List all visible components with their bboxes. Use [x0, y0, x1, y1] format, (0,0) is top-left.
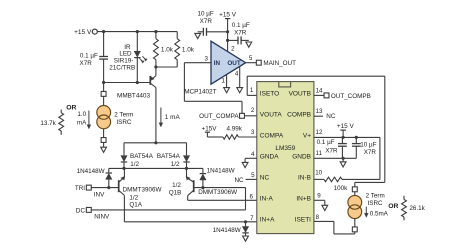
transistor Q1A DMMT3906W 1/2 (PNP) — [118, 180, 120, 192]
svg-text:100k: 100k — [334, 185, 349, 192]
svg-text:GNDB: GNDB — [292, 154, 311, 161]
svg-text:ISRC: ISRC — [116, 119, 131, 126]
svg-text:11: 11 — [316, 150, 323, 157]
svg-text:4: 4 — [235, 70, 239, 77]
annotation current arrow 1.0 mA — [88, 111, 90, 126]
svg-text:X7R: X7R — [234, 29, 247, 36]
svg-text:+15 V: +15 V — [219, 11, 237, 18]
svg-text:SIR19-: SIR19- — [114, 57, 134, 64]
svg-text:Q1B: Q1B — [169, 189, 182, 196]
wire MCP pin 1 ground — [226, 75, 228, 88]
wire to LM359 pin 1 — [247, 94, 257, 96]
svg-text:OUT_COMPB: OUT_COMPB — [331, 93, 371, 100]
ground arrow below caps — [342, 158, 344, 161]
svg-text:1/2: 1/2 — [130, 161, 139, 168]
svg-text:2: 2 — [251, 107, 255, 114]
svg-text:1N4148W: 1N4148W — [77, 168, 105, 175]
svg-text:DC: DC — [76, 207, 86, 214]
svg-text:4: 4 — [251, 151, 255, 158]
svg-text:9: 9 — [317, 192, 321, 199]
svg-text:1.0: 1.0 — [77, 111, 86, 118]
junction GNDB/ground — [342, 157, 345, 160]
pin 13 COMPB wire (NC) — [314, 115, 323, 117]
junction INV / 1N4148W — [107, 186, 110, 189]
svg-text:0.5mA: 0.5mA — [370, 211, 389, 218]
svg-text:1.0k: 1.0k — [161, 46, 174, 53]
svg-text:13.7k: 13.7k — [40, 120, 56, 127]
svg-text:1: 1 — [250, 87, 254, 94]
svg-text:ISRC: ISRC — [368, 200, 383, 207]
svg-text:+15 V: +15 V — [337, 123, 355, 130]
svg-text:MMBT4403: MMBT4403 — [117, 93, 150, 100]
svg-text:OR: OR — [66, 104, 76, 111]
junction base / 1N4148W anode — [201, 186, 204, 189]
2-terminal current source ISRC 0.5mA (right) — [352, 187, 357, 192]
svg-text:2 Term: 2 Term — [114, 111, 133, 118]
junction collector/rail A — [154, 141, 157, 144]
diode BAT54A 1/2 (right) — [186, 143, 188, 156]
svg-text:13: 13 — [316, 108, 323, 115]
pin 12 V+ wire — [314, 136, 380, 138]
wire base net y=82.5 — [104, 82, 150, 84]
svg-text:10 µF: 10 µF — [197, 11, 213, 18]
junction V+/cap 10uF — [355, 136, 358, 139]
wire MMBT4403 collector down — [155, 88, 157, 143]
svg-text:5: 5 — [249, 55, 253, 62]
svg-text:7: 7 — [250, 215, 254, 222]
svg-text:DMMT3906W: DMMT3906W — [123, 187, 162, 194]
capacitor 10uF X7R (at MCP) — [207, 31, 228, 33]
svg-text:1.0k: 1.0k — [182, 46, 195, 53]
wire ISETO feedback rail y=76.2 — [247, 75, 385, 77]
svg-text:MCP1402T: MCP1402T — [184, 88, 216, 95]
svg-text:21C/TRB: 21C/TRB — [109, 65, 135, 72]
svg-text:+15V: +15V — [202, 125, 218, 132]
svg-text:Q1A: Q1A — [129, 202, 142, 209]
svg-text:6: 6 — [250, 194, 254, 201]
junction on rail at cap C1 — [102, 30, 105, 33]
svg-text:X7R: X7R — [200, 18, 213, 25]
diode 1N4148W (right of Q1B) — [202, 168, 204, 173]
svg-text:OUT: OUT — [227, 60, 240, 67]
junction IN+A / 1N4148W bottom — [244, 220, 247, 223]
op-amp U1 LM359 (DIP-14 body) — [257, 82, 314, 234]
svg-text:IN+A: IN+A — [260, 217, 275, 224]
svg-text:NINV: NINV — [94, 213, 110, 220]
svg-text:TRI: TRI — [75, 185, 85, 192]
svg-text:IN+B: IN+B — [296, 196, 311, 203]
svg-text:mA: mA — [77, 120, 87, 127]
net continuation arrow below left ISRC — [101, 147, 107, 152]
svg-text:COMPB: COMPB — [287, 112, 311, 119]
net continuation arrow below bottom 1N4148W — [243, 236, 249, 241]
wire IN+A net y=221.8 — [124, 221, 256, 223]
capacitor 0.1uF X7R (at MCP) — [228, 39, 238, 41]
node OUT_COMPA terminal — [240, 113, 245, 118]
resistor 13.7k (alternative) — [60, 110, 62, 113]
svg-text:5: 5 — [251, 172, 255, 179]
svg-text:+15 V: +15 V — [74, 29, 92, 36]
capacitor 0.1uF X7R (top left) — [103, 32, 105, 57]
annotation current arrow 1 mA — [160, 108, 162, 125]
svg-text:1/2: 1/2 — [172, 182, 181, 189]
wire MCP input from OUT_COMPA — [184, 62, 211, 64]
svg-text:2 Term: 2 Term — [366, 192, 385, 199]
svg-text:NC: NC — [234, 177, 244, 184]
driver MCP1402T (buffer triangle) — [211, 41, 246, 84]
svg-text:VOUTA: VOUTA — [260, 112, 283, 119]
wire collector rail A y=142.8 — [124, 142, 187, 144]
junction +15V / 0.1uF — [226, 39, 229, 42]
diode 1N4148W (bottom) — [245, 222, 247, 227]
annotation current arrow 0.5mA — [365, 207, 367, 215]
diode BAT54A 1/2 (left) — [123, 143, 125, 156]
capacitor 0.1uF X7R (right) — [341, 137, 343, 143]
svg-text:DMMT3906W: DMMT3906W — [198, 189, 237, 196]
svg-text:ISETO: ISETO — [260, 91, 279, 98]
wire OUT_COMPA to pin 2 VOUTA — [245, 115, 257, 117]
svg-text:VOUTB: VOUTB — [289, 91, 311, 98]
svg-text:0.1 µF: 0.1 µF — [232, 22, 250, 29]
svg-text:V+: V+ — [303, 133, 311, 140]
pin 14 VOUTB wire — [314, 94, 324, 96]
svg-text:3: 3 — [251, 129, 255, 136]
junction V+/cap 0.1uF/+15V — [342, 136, 345, 139]
svg-text:12: 12 — [316, 129, 323, 136]
svg-text:1N4148W: 1N4148W — [213, 227, 241, 234]
svg-text:BAT54A: BAT54A — [157, 153, 181, 160]
node OUT_COMPB terminal — [324, 93, 329, 98]
resistor 26.1k (alternative) — [403, 196, 405, 200]
capacitor 10uF X7R (right) — [355, 137, 357, 143]
pin 4 GNDA wire to ground arrow — [245, 157, 257, 159]
svg-text:3: 3 — [204, 56, 208, 63]
svg-text:INV: INV — [94, 191, 105, 198]
wire INV net — [91, 187, 118, 189]
wire MCP pin 4 ground — [239, 67, 241, 88]
svg-text:1 mA: 1 mA — [165, 114, 181, 121]
svg-text:LM359: LM359 — [275, 145, 295, 152]
svg-text:GNDA: GNDA — [260, 154, 279, 161]
svg-text:X7R: X7R — [364, 149, 377, 156]
resistor R 1.0k #1 — [155, 32, 157, 39]
svg-text:NC: NC — [260, 175, 270, 182]
junction on rail at R 1.0k #1 — [154, 30, 157, 33]
svg-text:OUT_COMPA: OUT_COMPA — [199, 113, 239, 120]
resistor R 1.0k #2 — [176, 32, 178, 39]
svg-text:0.1 µF: 0.1 µF — [317, 139, 335, 146]
transistor Q1B DMMT3906W 1/2 (PNP, mirrored) — [193, 180, 195, 192]
svg-text:26.1k: 26.1k — [409, 205, 425, 212]
junction +15V / 10uF — [226, 30, 229, 33]
svg-text:NC: NC — [326, 113, 336, 120]
svg-text:1/2: 1/2 — [129, 194, 138, 201]
IR LED SIR19-21C/TRB — [136, 32, 138, 51]
junction on rail at LED — [136, 30, 139, 33]
pin 10 IN-B wire with resistor 100k — [314, 178, 324, 180]
svg-text:2: 2 — [231, 46, 235, 53]
wire top +15V rail — [97, 31, 177, 33]
svg-text:10: 10 — [315, 170, 322, 177]
svg-text:ISETI: ISETI — [295, 217, 311, 224]
svg-text:1/2: 1/2 — [171, 161, 180, 168]
wire emitter rail B y=168.4 — [109, 167, 203, 169]
junction cap/base wire — [102, 81, 105, 84]
wire Q1B collector to IN-A — [187, 196, 189, 201]
svg-text:BAT54A: BAT54A — [130, 153, 154, 160]
junction LED/base wire — [136, 81, 139, 84]
svg-text:IN-B: IN-B — [298, 175, 311, 182]
svg-text:IN: IN — [214, 60, 221, 67]
wire joining 1.0k resistor bottoms — [156, 66, 177, 68]
svg-text:10 µF: 10 µF — [360, 141, 376, 148]
svg-text:14: 14 — [316, 87, 323, 94]
wire Q1B base net to NINV — [194, 187, 246, 189]
pin 5 NC label — [246, 178, 257, 180]
svg-text:0.1 µF: 0.1 µF — [80, 52, 98, 59]
svg-text:X7R: X7R — [80, 60, 93, 67]
svg-text:8: 8 — [316, 214, 320, 221]
ground arrow left of 10uF — [195, 33, 201, 38]
pin 8 ISETI wire to ISRC — [314, 220, 334, 222]
2-terminal current source ISRC 1.0mA (left) — [103, 83, 105, 92]
junction rail B / Q1B emitter — [185, 167, 188, 170]
svg-text:1: 1 — [222, 78, 226, 85]
node +15V terminal (top left) — [92, 29, 97, 34]
diode 1N4148W (left) — [108, 168, 110, 172]
svg-text:OR: OR — [388, 203, 398, 210]
pin 11 GNDB wire — [314, 157, 356, 159]
svg-text:4.99k: 4.99k — [227, 125, 243, 132]
junction resistor bottoms / emitter — [154, 65, 157, 68]
svg-text:X7R: X7R — [325, 147, 338, 154]
pin 9 IN+B wire to net arrow — [314, 199, 325, 201]
svg-text:IN-A: IN-A — [260, 196, 274, 203]
ground arrow right of 0.1uF — [246, 42, 252, 47]
junction rail B / Q1A emitter — [122, 167, 125, 170]
svg-text:COMPA: COMPA — [260, 133, 284, 140]
svg-text:MAIN_OUT: MAIN_OUT — [263, 60, 296, 67]
transistor MMBT4403 (PNP) — [155, 67, 157, 76]
wire Q1A collector down to IN+A wire — [123, 195, 125, 221]
svg-text:1N4148W: 1N4148W — [207, 168, 235, 175]
